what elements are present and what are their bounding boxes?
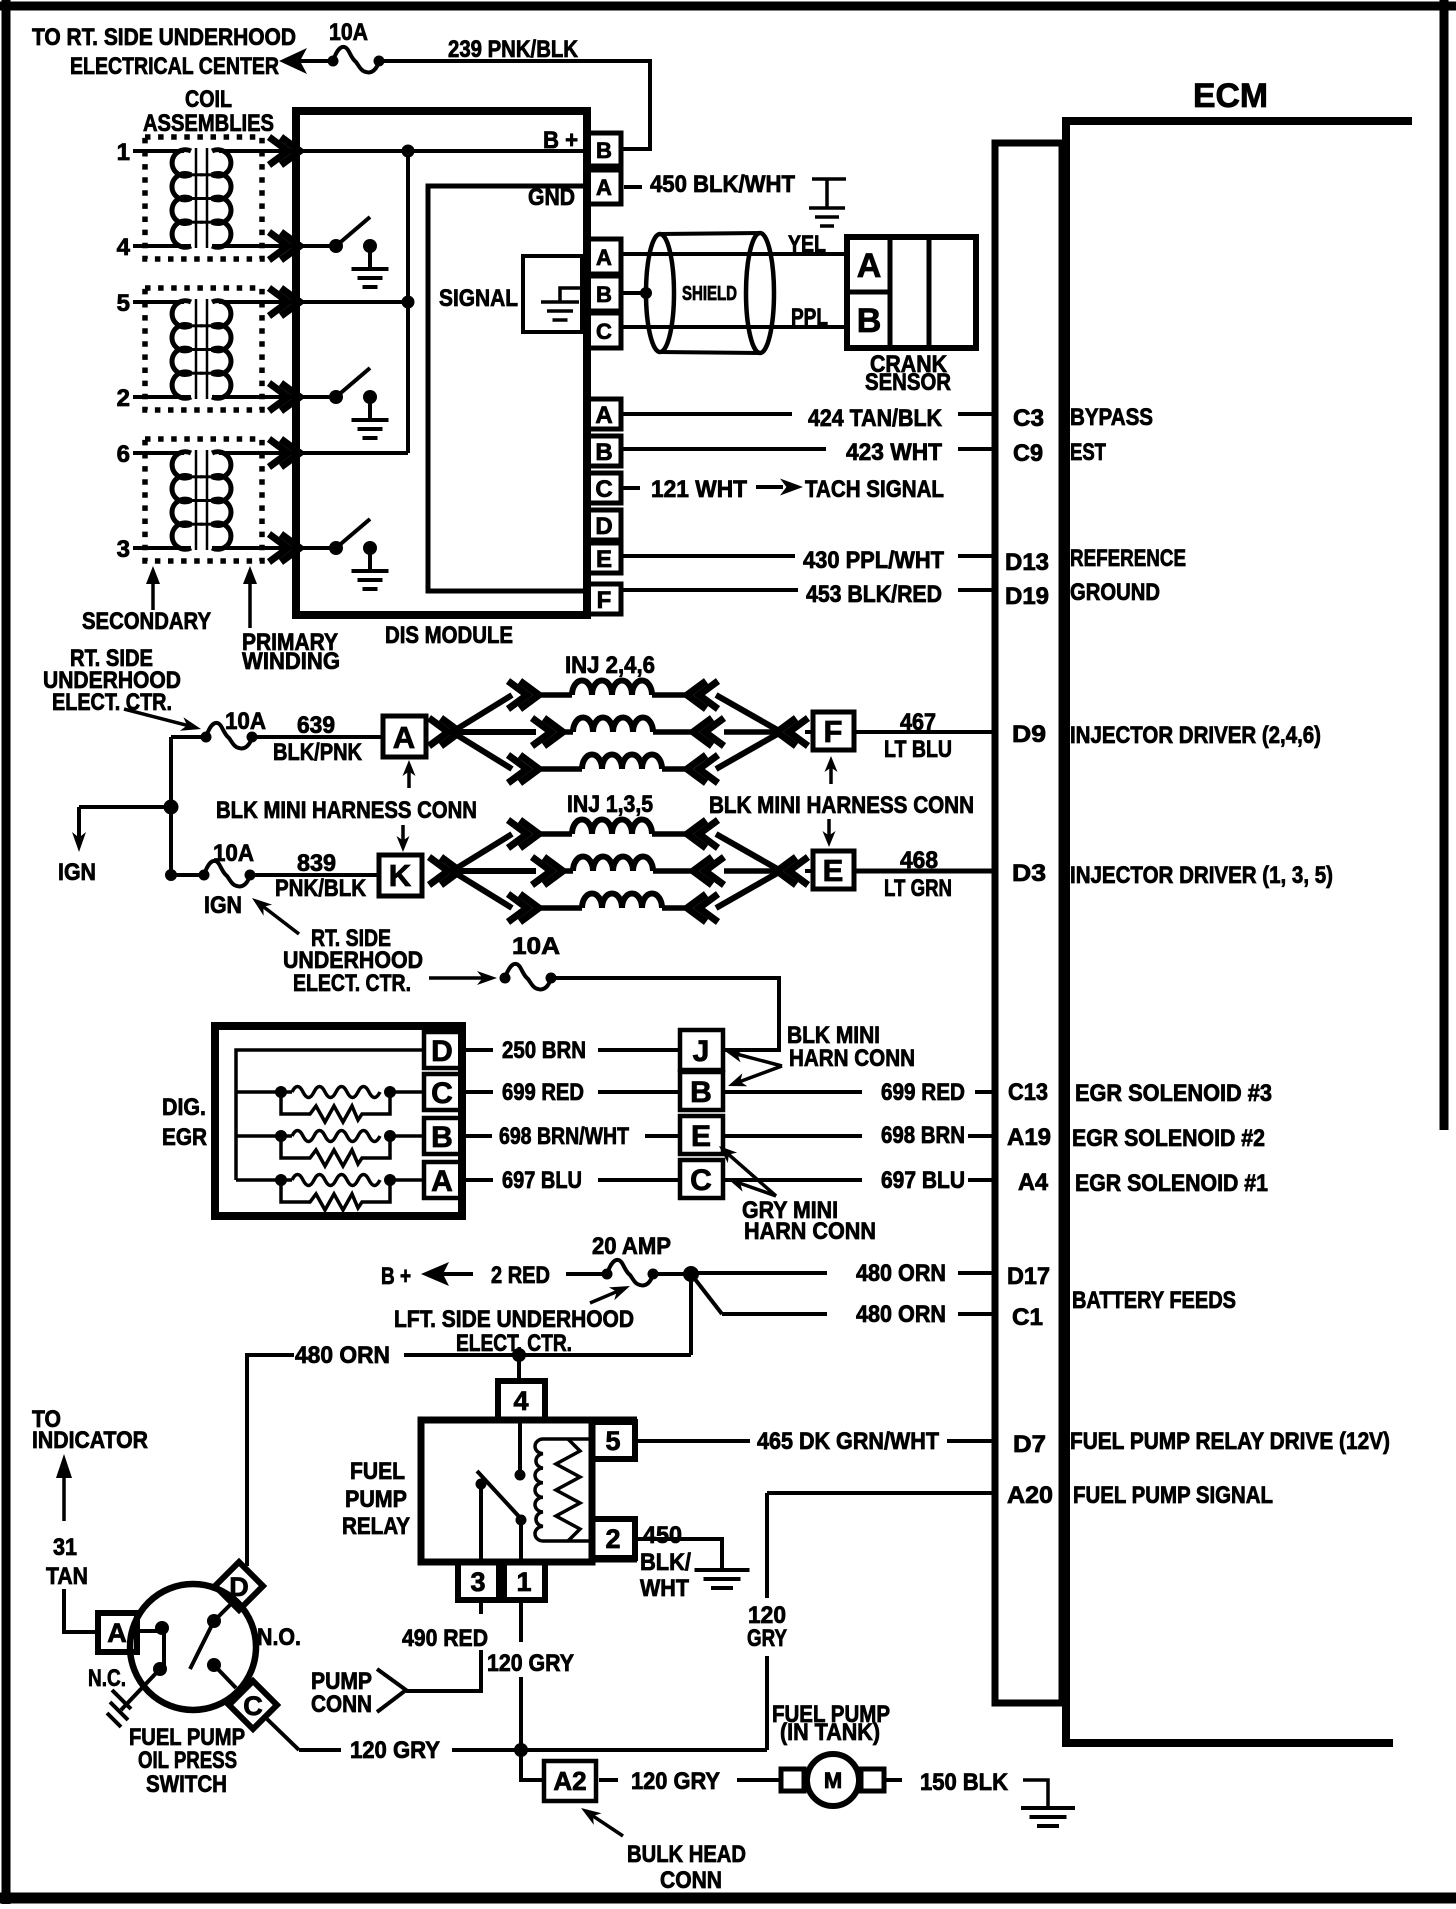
svg-text:YEL: YEL [788,231,826,258]
svg-text:423 WHT: 423 WHT [846,439,942,466]
svg-text:A: A [857,247,882,285]
svg-text:2: 2 [605,1524,620,1554]
svg-text:490 RED: 490 RED [402,1625,488,1652]
wire to switch row y548 [298,546,336,550]
svg-text:A: A [393,720,415,755]
svg-text:EGR SOLENOID #1: EGR SOLENOID #1 [1075,1170,1268,1197]
fuse F2 10A [206,723,252,749]
connector A blk mini harness [383,716,426,757]
node IGN lower junction [165,869,177,881]
coil T2 primary winding [212,301,231,399]
svg-text:453 BLK/RED: 453 BLK/RED [806,581,942,608]
wire 121 WHT tach [623,486,640,490]
wire fan INJ 1,3,5 [452,834,512,871]
wire EGR pin row C [390,1090,424,1094]
chevron bottom row INJ 2,4,6 [508,755,539,783]
svg-text:FUEL: FUEL [350,1458,405,1485]
wire to fuse F3 [171,873,204,877]
coil T2 secondary winding [172,301,191,399]
svg-text:2 RED: 2 RED [491,1262,550,1289]
arrowhead B+ [421,1262,449,1286]
wire fuse F4 to connector J [551,978,779,1050]
coil assembly T1 dotted box [145,137,262,259]
DIS output pin A [587,399,621,429]
svg-text:10A: 10A [329,19,368,46]
relay switch contact A [515,1470,526,1481]
node B+ junction [402,145,415,158]
svg-text:ELECT. CTR.: ELECT. CTR. [293,970,411,997]
svg-text:C: C [431,1077,453,1110]
svg-text:3: 3 [117,536,130,563]
node battery junction [683,1266,699,1282]
svg-text:31: 31 [53,1534,77,1561]
svg-text:REFERENCE: REFERENCE [1070,545,1186,572]
svg-text:C: C [596,319,612,344]
wire B+ bus inside DIS [296,149,587,153]
svg-text:C1: C1 [1012,1304,1043,1331]
wire pin C to 120 GRY [267,1719,299,1750]
wire 697 BLU left [464,1178,493,1182]
svg-text:SECONDARY: SECONDARY [82,608,211,635]
DIS crank pin A [587,239,621,274]
wire coil T1 row 1 to DIS [219,149,298,153]
chevron connector row 4 [269,232,300,260]
svg-text:EGR SOLENOID #2: EGR SOLENOID #2 [1072,1125,1265,1152]
arrow to IGN fuse [262,905,299,934]
oil switch contact 2 [153,1662,167,1676]
arrow to fuse F2 [124,709,189,726]
wire 150 BLK [884,1778,902,1782]
fuse F4 10A [505,964,551,990]
wire relay pin 2 to ground [635,1539,722,1568]
svg-text:120 GRY: 120 GRY [350,1737,440,1764]
svg-text:PUMP: PUMP [345,1486,407,1513]
switch ground contact row y397 [363,390,377,404]
oil switch blade [190,1621,214,1669]
arrow tach signal [756,485,783,489]
node EGR left row C [275,1086,287,1098]
wire A2 dash [599,1778,618,1782]
wire 480 ORN to D17 [697,1271,827,1275]
svg-text:INJECTOR DRIVER (2,4,6): INJECTOR DRIVER (2,4,6) [1070,722,1321,749]
node shield drain dot [640,287,652,299]
svg-text:3: 3 [470,1567,485,1597]
svg-text:LFT. SIDE UNDERHOOD: LFT. SIDE UNDERHOOD [394,1306,634,1333]
svg-text:A4: A4 [1018,1169,1049,1196]
ECM box [1066,121,1412,1743]
svg-text:FUEL PUMP RELAY DRIVE (12V): FUEL PUMP RELAY DRIVE (12V) [1070,1428,1390,1455]
svg-text:C: C [595,476,612,503]
wire 250 BRN [464,1048,493,1052]
wire shield drain [621,291,648,295]
svg-text:GND: GND [528,184,575,211]
svg-text:INJ 1,3,5: INJ 1,3,5 [567,791,653,818]
node EGR left row A [275,1174,287,1186]
coil T3 core [195,450,198,550]
wire coil T3 row 6 to DIS [219,451,298,455]
wire 430 PPL/WHT [621,554,795,558]
wire relay pin 1 down [519,1600,523,1642]
svg-text:4: 4 [513,1386,528,1416]
wire coil T3 row 3 to DIS [219,546,298,550]
arrow to connector A [407,770,411,788]
wire battery junction down [689,1274,693,1355]
wire row5 to bus [298,300,408,304]
svg-text:EGR SOLENOID #3: EGR SOLENOID #3 [1075,1080,1272,1107]
ground symbol 150 BLK [1023,1780,1048,1806]
node relay feed junction [512,1348,526,1362]
svg-text:699 RED: 699 RED [502,1079,584,1106]
wire 31 TAN [64,1589,98,1632]
wire 239 PNK/BLK [379,61,650,149]
chevron out of INJ 1,3,5 [777,857,808,885]
arrow to connector K [401,825,405,842]
chevron connector row 1 [269,137,300,165]
wire pin A to contacts [137,1629,160,1633]
svg-text:N.C.: N.C. [88,1665,126,1692]
svg-text:480 ORN: 480 ORN [295,1342,390,1369]
switch ground contact row y246 [363,239,377,253]
switch contact row y548 [329,541,343,555]
svg-text:TACH SIGNAL: TACH SIGNAL [805,476,944,503]
svg-text:699 RED: 699 RED [881,1079,965,1106]
svg-text:B: B [595,439,612,466]
svg-text:839: 839 [297,850,336,877]
svg-text:CONN: CONN [660,1867,722,1894]
wire contact C to pin 1 [519,1523,523,1562]
shield capsule [646,234,674,352]
arrow to connector J [735,1054,782,1066]
svg-text:PNK/BLK: PNK/BLK [275,875,367,902]
chevron out of INJ 2,4,6 [777,718,808,746]
arrowhead to electrical center [279,48,307,74]
svg-text:450 BLK/WHT: 450 BLK/WHT [650,171,795,198]
wire 450 BLK/WHT stub [624,185,642,189]
wire to fuse F5 [566,1272,607,1276]
svg-text:250 BRN: 250 BRN [502,1037,586,1064]
relay pin 1 [504,1562,545,1600]
injector coil bottom INJ 2,4,6 [539,766,582,772]
DIS internal ground box [523,256,582,332]
connector E mini [680,1116,723,1154]
fuse F1 10A [333,47,379,73]
node coil 5 junction [402,296,415,309]
EGR resistor row A [281,1180,390,1210]
EGR resistor row B [281,1136,390,1166]
svg-text:BYPASS: BYPASS [1070,404,1153,431]
svg-text:ELECTRICAL CENTER: ELECTRICAL CENTER [70,53,279,80]
connector J [680,1030,723,1070]
svg-text:D17: D17 [1007,1263,1050,1290]
svg-text:5: 5 [117,290,130,317]
svg-text:C3: C3 [1013,405,1044,432]
wire 490 RED to pump conn [406,1650,481,1691]
svg-text:K: K [389,858,412,893]
wire to switch row y246 [298,244,336,248]
svg-text:C: C [243,1691,263,1721]
svg-text:(IN TANK): (IN TANK) [780,1719,880,1746]
svg-text:D13: D13 [1005,549,1049,576]
chevron into INJ 2,4,6 fan [429,718,460,746]
svg-text:121 WHT: 121 WHT [651,476,747,503]
arrow to connector C mini [738,1183,776,1196]
NC hash marks [112,1690,131,1709]
svg-text:10A: 10A [512,933,560,960]
svg-text:C13: C13 [1008,1079,1048,1106]
wire coil T2 row 2 to DIS [219,395,298,399]
svg-text:D: D [431,1035,453,1068]
ground symbol row y548 [352,569,389,573]
relay coil connections [543,1437,592,1441]
arrow to fuse F5 [590,1291,619,1303]
chevron mid row INJ 1,3,5 [532,857,563,885]
svg-text:A: A [596,245,612,270]
svg-text:468: 468 [900,847,938,874]
DIS pin A (GND) [587,170,621,204]
svg-text:BLK/PNK: BLK/PNK [273,739,363,766]
wire fuel pump signal A20 [767,1491,995,1495]
svg-text:SHIELD: SHIELD [682,283,737,305]
wire 639 BLK/PNK [252,735,383,739]
svg-text:B: B [431,1121,453,1154]
switch ground contact row y548 [363,541,377,555]
oil switch pin A [98,1613,137,1652]
node 120 GRY junction [514,1743,528,1757]
svg-text:697 BLU: 697 BLU [881,1167,965,1194]
svg-text:BLK MINI HARNESS CONN: BLK MINI HARNESS CONN [709,792,974,819]
ground symbol row y397 [352,418,389,422]
EGR pin D [424,1032,461,1068]
switch contact row y246 [329,239,343,253]
chevron out mid INJ 2,4,6 [693,718,724,746]
wire to switch row y397 [298,395,336,399]
svg-text:150 BLK: 150 BLK [920,1769,1009,1796]
svg-text:430 PPL/WHT: 430 PPL/WHT [803,547,944,574]
injector coil bottom INJ 1,3,5 [539,905,582,911]
DIS crank pin B [587,276,621,311]
oil switch pin C diamond [229,1681,277,1729]
svg-text:FUEL PUMP SIGNAL: FUEL PUMP SIGNAL [1073,1482,1273,1509]
wire arrow to fuse F1 [300,59,333,63]
oil switch contact 4 [207,1658,221,1672]
coil T1 primary winding [212,150,231,248]
coil T2 core [195,299,198,399]
svg-text:B: B [857,302,882,340]
relay pin 5 [592,1422,635,1459]
wire relay pin 3 stub [479,1600,483,1614]
svg-text:RELAY: RELAY [342,1513,410,1540]
wire 120 GRY horizontal [299,1748,341,1752]
svg-text:IGN: IGN [58,859,96,886]
ground symbol 450 BLK/WHT [812,179,846,208]
arrow to connector E [827,819,831,837]
svg-text:EGR: EGR [162,1124,207,1151]
wire IGN vertical bus [169,737,173,875]
svg-text:SIGNAL: SIGNAL [439,285,518,312]
svg-text:D3: D3 [1012,860,1046,887]
switch contact row y397 [329,390,343,404]
coil T1 secondary winding [172,150,191,248]
svg-text:ASSEMBLIES: ASSEMBLIES [143,110,274,137]
injector coil mid INJ 2,4,6 [563,729,573,735]
wire 423 WHT [621,447,826,451]
DIS pin B (B+) [587,133,621,166]
svg-text:120 GRY: 120 GRY [487,1650,574,1677]
switch blade row y397 [336,368,370,397]
svg-text:SWITCH: SWITCH [146,1771,227,1798]
wire PPL [621,325,850,329]
DIS output pin D [587,510,621,540]
svg-text:E: E [596,546,612,573]
svg-text:4: 4 [117,234,131,261]
svg-text:450: 450 [643,1522,682,1549]
page border right [1440,0,1449,1130]
svg-text:J: J [693,1035,710,1068]
wire to relay pin 4 [517,1355,521,1381]
wire 697 BLU right [723,1178,862,1182]
wire YEL [621,252,850,256]
wire contact 4 to pin C [214,1665,236,1688]
EGR solenoid winding row A [236,1178,292,1182]
svg-text:LT BLU: LT BLU [884,736,952,763]
pump connector symbol [377,1669,406,1712]
wire row6 to bus [298,451,408,455]
svg-text:1: 1 [117,139,130,166]
oil switch contact 3 [207,1614,221,1628]
EGR solenoid winding row C [236,1090,292,1094]
relay coil resistor [556,1439,580,1541]
wire junction to A2 [521,1750,544,1780]
relay switch common wire [518,1420,522,1472]
svg-text:D9: D9 [1012,721,1046,748]
DIS output pin C [587,473,621,503]
svg-text:WINDING: WINDING [242,648,340,675]
svg-text:LT GRN: LT GRN [884,875,952,902]
crank sensor connector [847,237,976,348]
wire 465 DK GRN/WHT [635,1439,750,1443]
wire B+ vertical bus [406,151,410,453]
chevron bottom row INJ 1,3,5 [508,894,539,922]
wire coil T2 row 5 to DIS [219,300,298,304]
svg-text:D: D [229,1572,249,1602]
svg-text:DIG.: DIG. [162,1094,206,1121]
coil T3 primary winding [212,452,231,550]
arrow to connector F [829,766,833,784]
coil T1 core [195,148,198,248]
relay switch blade [477,1471,524,1522]
svg-text:467: 467 [900,709,936,736]
svg-text:BLK/: BLK/ [640,1549,691,1576]
DIS output pin B [587,436,621,466]
svg-text:2: 2 [117,385,130,412]
injector coil top INJ 1,3,5 [539,831,572,837]
svg-text:1: 1 [516,1567,531,1597]
chevron connector row 6 [269,439,300,467]
arrow to connector E mini [727,1153,776,1196]
arrow to A2 [591,1815,623,1836]
wire 480 ORN to relay [404,1353,691,1357]
wire 480 ORN branch [247,1355,294,1566]
DIS module box [296,111,587,615]
wire 699 RED right [723,1090,862,1094]
svg-text:E: E [823,853,844,888]
connector K blk mini harness [379,855,422,896]
svg-text:A: A [596,175,612,200]
chevron connector row 5 [269,288,300,316]
chevron out mid INJ 1,3,5 [693,857,724,885]
svg-text:HARN CONN: HARN CONN [744,1218,876,1245]
wire fan INJ 2,4,6 [452,695,512,732]
chevron connector row 2 [269,383,300,411]
svg-text:BATTERY FEEDS: BATTERY FEEDS [1072,1287,1236,1314]
svg-text:698 BRN: 698 BRN [881,1122,965,1149]
svg-text:B: B [690,1076,712,1109]
injector coil top INJ 2,4,6 [539,692,572,698]
connector E blk mini harness [813,851,854,889]
svg-text:PPL: PPL [791,304,828,331]
svg-text:EST: EST [1070,439,1106,466]
node IGN junction [164,800,179,815]
svg-text:D: D [595,513,612,540]
svg-text:A19: A19 [1007,1124,1051,1151]
DIS output pin F [587,584,621,614]
connector F blk mini harness [813,712,854,750]
DIS output pin E [587,543,621,573]
wire 839 PNK/BLK [250,873,379,877]
wire 480 ORN to C1 [691,1274,722,1314]
svg-text:480 ORN: 480 ORN [856,1301,946,1328]
EGR pin C [424,1074,461,1110]
svg-text:IGN: IGN [204,892,242,919]
DIS crank pin C [587,313,621,348]
chevron into INJ 1,3,5 fan [429,857,460,885]
svg-text:639: 639 [297,712,335,739]
svg-text:697 BLU: 697 BLU [502,1167,582,1194]
svg-text:B: B [596,282,612,307]
svg-text:CONN: CONN [311,1691,372,1718]
fuel pump relay box [421,1420,592,1562]
injector coil mid INJ 1,3,5 [563,868,573,874]
svg-text:A: A [595,402,612,429]
node EGR right row A [384,1174,396,1186]
page border left [2,0,11,1904]
svg-text:INJ 2,4,6: INJ 2,4,6 [565,652,655,679]
EGR solenoid winding row B [236,1134,292,1138]
ground symbol relay [695,1568,750,1572]
svg-text:GRY: GRY [747,1625,787,1652]
svg-text:F: F [597,587,612,614]
svg-text:424 TAN/BLK: 424 TAN/BLK [808,405,943,432]
wire 453 BLK/RED [621,588,798,592]
page border bottom [0,1893,1456,1904]
svg-text:INJECTOR DRIVER (1, 3, 5): INJECTOR DRIVER (1, 3, 5) [1070,862,1333,889]
node EGR right row B [384,1130,396,1142]
svg-text:SENSOR: SENSOR [865,369,951,396]
svg-text:10A: 10A [213,840,254,867]
svg-text:F: F [824,714,843,749]
svg-text:M: M [824,1768,842,1793]
wire to IGN [79,805,171,809]
arrow to fuse F4 [429,976,485,980]
relay coil [535,1439,543,1541]
wire 699 RED left [464,1090,493,1094]
ground symbol row y246 [352,267,389,271]
svg-text:120 GRY: 120 GRY [631,1768,720,1795]
node EGR left row B [275,1130,287,1142]
svg-text:B +: B + [381,1263,411,1290]
chevron top row INJ 2,4,6 [508,681,539,709]
svg-text:10A: 10A [225,708,266,735]
